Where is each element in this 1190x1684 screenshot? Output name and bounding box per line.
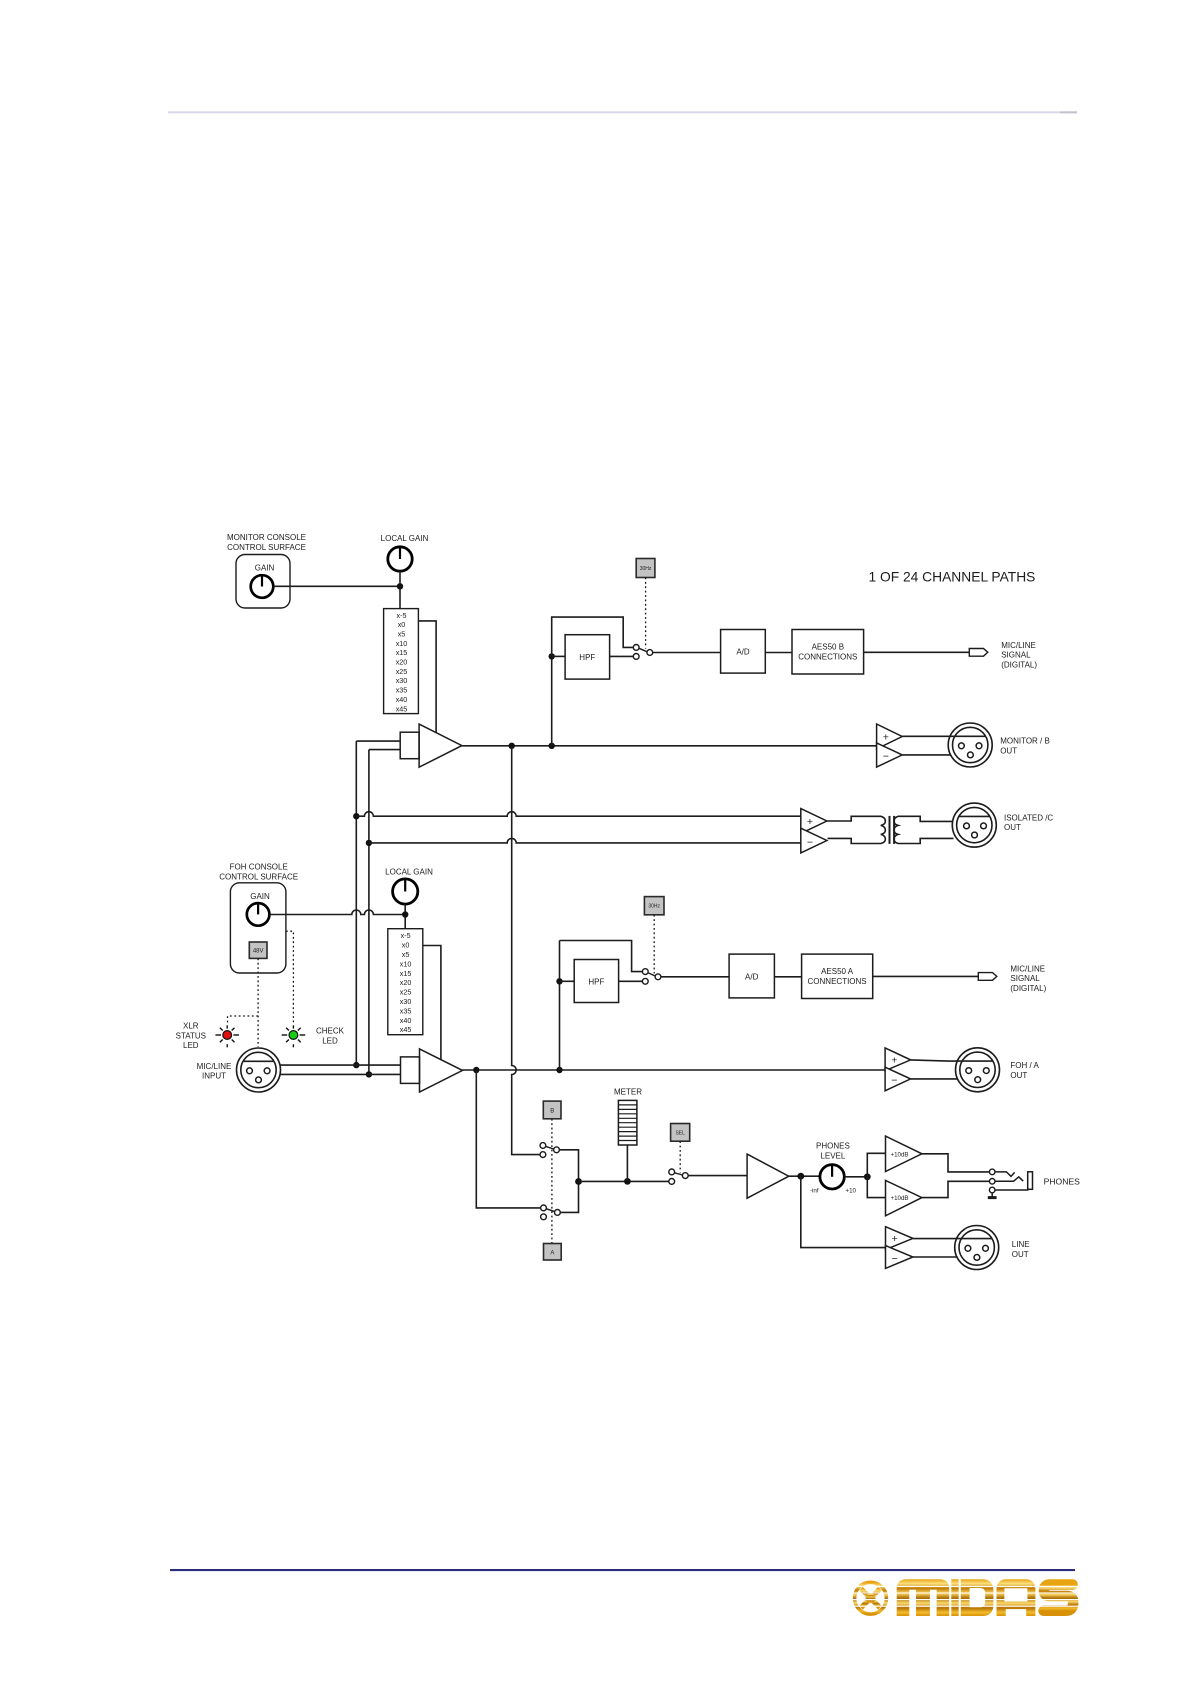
svg-text:CONNECTIONS: CONNECTIONS bbox=[798, 652, 857, 661]
svg-text:x25: x25 bbox=[400, 988, 412, 997]
svg-text:GAIN: GAIN bbox=[255, 564, 275, 573]
svg-text:x15: x15 bbox=[396, 648, 408, 657]
label MIC/LINE INPUT bbox=[197, 1062, 232, 1081]
svg-text:A/D: A/D bbox=[736, 647, 750, 656]
connector XLR MONITOR B OUT bbox=[948, 723, 992, 767]
svg-text:x40: x40 bbox=[396, 695, 408, 704]
input tab FOH VCA bbox=[401, 1057, 420, 1084]
node monitor out to HPF B bbox=[549, 743, 555, 749]
svg-text:x20: x20 bbox=[396, 658, 408, 667]
wire FOH A to select switch vertical bbox=[476, 1070, 540, 1208]
svg-text:x45: x45 bbox=[400, 1025, 412, 1034]
wire headphone left to jack tip bbox=[922, 1154, 989, 1172]
svg-text:x5: x5 bbox=[398, 630, 406, 639]
svg-text:x15: x15 bbox=[400, 969, 412, 978]
svg-text:+: + bbox=[807, 816, 813, 828]
svg-text:OUT: OUT bbox=[1000, 746, 1017, 755]
svg-text:30Hz: 30Hz bbox=[648, 904, 660, 910]
svg-text:1 OF 24 CHANNEL PATHS: 1 OF 24 CHANNEL PATHS bbox=[869, 570, 1036, 585]
wire level pot to headphone amps bbox=[845, 1176, 868, 1178]
amplifier VCA FOH (triangle) bbox=[420, 1049, 463, 1092]
svg-text:SEL: SEL bbox=[675, 1131, 685, 1137]
svg-text:+10: +10 bbox=[846, 1187, 857, 1194]
dashed control 30Hz B to switch bbox=[645, 578, 647, 649]
dashed control 30Hz A to switch bbox=[653, 915, 655, 974]
svg-text:OUT: OUT bbox=[1010, 1071, 1027, 1080]
wire bus1 vertical bbox=[355, 741, 357, 1065]
svg-text:A/D: A/D bbox=[745, 972, 759, 981]
wire phones node to line out driver bbox=[801, 1176, 886, 1247]
svg-text:−: − bbox=[892, 1253, 898, 1265]
wire bus1 to VCA tab bbox=[356, 740, 400, 742]
svg-text:MIC/LINE: MIC/LINE bbox=[1010, 965, 1045, 974]
svg-text:AES50 B: AES50 B bbox=[812, 642, 844, 651]
node monitor out to B select bbox=[509, 743, 515, 749]
wire AD A to AES50 A bbox=[774, 976, 801, 978]
svg-text:x30: x30 bbox=[400, 997, 412, 1006]
node bus1 xlr join bbox=[353, 1062, 359, 1068]
logo stripe gaps bbox=[851, 1586, 1080, 1606]
svg-text:SIGNAL: SIGNAL bbox=[1001, 651, 1031, 660]
control box A bbox=[544, 1244, 562, 1261]
svg-text:x10: x10 bbox=[396, 639, 408, 648]
node HPF A input bbox=[556, 978, 562, 984]
label ISOLATED C OUT bbox=[1004, 814, 1053, 833]
connector XLR FOH A OUT bbox=[956, 1048, 1000, 1092]
MIDAS logo letter A bbox=[997, 1579, 1036, 1616]
pins XLR monitor bbox=[959, 743, 982, 758]
op-amp phones preamp bbox=[747, 1154, 789, 1198]
svg-text:MIC/LINE: MIC/LINE bbox=[197, 1062, 232, 1071]
transformer T1 primary bbox=[827, 816, 885, 843]
wire line out minus to XLR bbox=[913, 1256, 957, 1258]
svg-text:LOCAL GAIN: LOCAL GAIN bbox=[381, 534, 429, 543]
svg-text:A: A bbox=[550, 1250, 554, 1256]
node FOH out to A select bbox=[473, 1067, 479, 1073]
node select mix bbox=[575, 1178, 582, 1185]
wire monitor B to select switch vertical with hop bbox=[512, 746, 540, 1155]
knob LOCAL GAIN FOH bbox=[393, 879, 418, 904]
node bus2 isolated tap bbox=[366, 840, 372, 846]
connector XLR ISOLATED C OUT bbox=[952, 803, 996, 847]
wire XLR input hot to FOH VCA bbox=[280, 1064, 400, 1066]
svg-text:(DIGITAL): (DIGITAL) bbox=[1001, 660, 1037, 669]
svg-text:−: − bbox=[807, 836, 813, 848]
svg-text:FOH / A: FOH / A bbox=[1010, 1061, 1039, 1070]
knob LOCAL GAIN monitor bbox=[388, 547, 412, 571]
svg-text:METER: METER bbox=[614, 1088, 642, 1097]
svg-text:x30: x30 bbox=[396, 676, 408, 685]
jack tip spring bbox=[995, 1172, 1015, 1177]
wire HPF B feed vertical bbox=[551, 656, 553, 745]
control box 30Hz A bbox=[644, 897, 664, 915]
wire phones amp to level pot bbox=[789, 1175, 820, 1177]
svg-text:+10dB: +10dB bbox=[891, 1151, 909, 1158]
pins XLR isolated bbox=[964, 823, 987, 838]
switch select B bbox=[540, 1143, 559, 1158]
svg-text:−: − bbox=[891, 1075, 897, 1087]
wire bus2 vertical bbox=[368, 750, 370, 1075]
jack body bbox=[1028, 1172, 1033, 1190]
svg-text:OUT: OUT bbox=[1004, 823, 1021, 832]
gain values list (monitor) bbox=[396, 611, 408, 714]
svg-text:OUT: OUT bbox=[1012, 1250, 1029, 1259]
wire HPF A feed vertical bbox=[559, 941, 561, 1071]
svg-text:+10dB: +10dB bbox=[891, 1195, 909, 1202]
wire FOH gain list to VCA control port bbox=[423, 946, 441, 1061]
svg-text:LED: LED bbox=[183, 1041, 199, 1050]
wire switch B to AD bbox=[653, 652, 721, 654]
converter AD A box bbox=[729, 954, 774, 998]
meter bargraph bbox=[618, 1100, 637, 1145]
MIDAS logo letter S bbox=[1044, 1585, 1074, 1611]
dashed FOH console to check LED bbox=[286, 931, 294, 1023]
op-amp headphone left +10dB bbox=[886, 1136, 922, 1171]
node HPF B input bbox=[549, 653, 555, 659]
node FOH out to HPF A bbox=[556, 1067, 562, 1073]
svg-text:GAIN: GAIN bbox=[250, 892, 270, 901]
svg-text:x40: x40 bbox=[400, 1016, 412, 1025]
svg-text:−: − bbox=[883, 751, 889, 763]
LED XLR status (red) bbox=[215, 1025, 239, 1047]
op-amp driver LINE OUT minus bbox=[886, 1246, 913, 1269]
wire AES50 A to digital connector bbox=[873, 975, 979, 977]
label XLR STATUS LED bbox=[176, 1022, 206, 1050]
wire HPF B output to switch bbox=[610, 655, 634, 657]
op-amp driver ISOLATED minus bbox=[801, 828, 827, 853]
wire monitor VCA output bbox=[462, 745, 877, 747]
MIDAS logo letter I bbox=[951, 1579, 958, 1616]
node bus1 isolated tap bbox=[353, 813, 359, 819]
node phones split bbox=[797, 1173, 804, 1180]
switch SEL bbox=[669, 1169, 688, 1184]
label PHONES LEVEL bbox=[816, 1142, 850, 1161]
svg-text:x25: x25 bbox=[396, 667, 408, 676]
jack sleeve wire bbox=[995, 1188, 1028, 1191]
control box 30Hz B bbox=[636, 559, 655, 578]
svg-text:AES50 A: AES50 A bbox=[821, 967, 854, 976]
converter AD B box bbox=[721, 630, 766, 674]
dashed branch to XLR status LED bbox=[228, 1016, 259, 1024]
ground jack sleeve bbox=[988, 1193, 997, 1198]
transformer T1 secondary bbox=[894, 816, 954, 843]
transformer T1 core bbox=[890, 816, 895, 844]
svg-text:CONTROL SURFACE: CONTROL SURFACE bbox=[227, 543, 306, 552]
svg-text:(DIGITAL): (DIGITAL) bbox=[1010, 984, 1046, 993]
wire HPF B bypass bbox=[552, 617, 633, 656]
label MIC/LINE SIGNAL DIGITAL B bbox=[1001, 641, 1037, 669]
gain steps box (monitor) bbox=[384, 609, 419, 714]
wire monitor driver minus to XLR bbox=[902, 754, 951, 756]
node headphone amp split bbox=[864, 1173, 871, 1180]
label FOH CONSOLE CONTROL SURFACE bbox=[219, 863, 298, 882]
node junction gain monitor bbox=[397, 583, 403, 589]
svg-text:LOCAL GAIN: LOCAL GAIN bbox=[385, 868, 433, 877]
connector XLR LINE OUT bbox=[955, 1226, 999, 1270]
label MIC/LINE SIGNAL DIGITAL A bbox=[1010, 965, 1046, 993]
knob GAIN monitor console bbox=[251, 575, 274, 598]
wire headphone right to jack ring bbox=[922, 1181, 989, 1197]
svg-text:LINE: LINE bbox=[1012, 1240, 1030, 1249]
wire split to headphone amps bbox=[867, 1153, 885, 1197]
switch select A bbox=[541, 1205, 561, 1220]
connector digital B bbox=[969, 649, 988, 657]
MIDAS logo letter D bbox=[961, 1579, 994, 1616]
knob GAIN FOH console bbox=[247, 903, 270, 926]
top rule bbox=[168, 111, 1077, 113]
label CHECK LED bbox=[316, 1027, 345, 1046]
op-amp driver MONITOR B plus bbox=[877, 724, 903, 749]
label FOH A OUT bbox=[1010, 1061, 1039, 1080]
dashed select control B to A bbox=[551, 1119, 553, 1244]
wire FOH local gain down to gain list bbox=[404, 904, 406, 928]
wire into HPF A bbox=[560, 980, 575, 982]
svg-text:B: B bbox=[550, 1108, 554, 1114]
wire monitor gain to local gain node bbox=[274, 585, 401, 587]
wire local gain knob down to gain list bbox=[399, 572, 401, 609]
svg-text:STATUS: STATUS bbox=[176, 1031, 206, 1040]
chord XLR isolated bbox=[960, 815, 990, 817]
svg-text:PHONES: PHONES bbox=[816, 1142, 850, 1151]
gain steps box (FOH) bbox=[388, 929, 423, 1035]
switch HPF B in/out bbox=[633, 645, 652, 660]
svg-text:MIC/LINE: MIC/LINE bbox=[1001, 641, 1036, 650]
svg-text:CHECK: CHECK bbox=[316, 1027, 345, 1036]
input tab monitor VCA bbox=[400, 732, 419, 759]
MIDAS logo emblem bbox=[855, 1582, 887, 1614]
jack ring spring bbox=[995, 1177, 1023, 1181]
wire into HPF B bbox=[552, 655, 565, 657]
node meter tap bbox=[624, 1178, 631, 1185]
op-amp driver FOH A plus bbox=[885, 1048, 911, 1071]
svg-text:-inf: -inf bbox=[810, 1187, 819, 1194]
svg-text:x35: x35 bbox=[396, 686, 408, 695]
wire bus2 to VCA tab bbox=[369, 749, 400, 751]
label LINE OUT bbox=[1012, 1240, 1030, 1259]
knob PHONES LEVEL bbox=[820, 1165, 844, 1189]
connector digital A bbox=[978, 973, 997, 981]
dashed 48V to XLR input bbox=[257, 958, 259, 1047]
LED check (green) bbox=[282, 1025, 306, 1047]
svg-text:x0: x0 bbox=[402, 941, 410, 950]
svg-text:HPF: HPF bbox=[579, 653, 595, 662]
svg-text:x5: x5 bbox=[402, 950, 410, 959]
filter HPF B box bbox=[565, 635, 610, 679]
label polarity line out driver bbox=[892, 1233, 898, 1265]
svg-text:x10: x10 bbox=[400, 959, 412, 968]
pins XLR line out bbox=[965, 1245, 988, 1260]
svg-text:HPF: HPF bbox=[588, 977, 604, 986]
svg-text:30Hz: 30Hz bbox=[640, 566, 652, 572]
wire AES50 B to digital connector bbox=[864, 651, 970, 653]
monitor console surface box bbox=[236, 555, 290, 609]
svg-text:48V: 48V bbox=[253, 949, 264, 955]
svg-text:MONITOR CONSOLE: MONITOR CONSOLE bbox=[227, 533, 306, 542]
wire meter drop bbox=[626, 1145, 628, 1181]
wire HPF A bypass bbox=[560, 941, 643, 972]
svg-text:INPUT: INPUT bbox=[202, 1072, 226, 1081]
wire AD B to AES50 B bbox=[765, 652, 792, 654]
node bus2 xlr join bbox=[366, 1071, 372, 1077]
wire monitor driver plus to XLR chord bbox=[902, 735, 985, 737]
svg-text:LED: LED bbox=[322, 1036, 338, 1045]
svg-text:+: + bbox=[891, 1055, 897, 1067]
svg-text:x0: x0 bbox=[398, 620, 406, 629]
svg-text:MONITOR / B: MONITOR / B bbox=[1000, 737, 1050, 746]
control box B bbox=[543, 1101, 561, 1119]
svg-text:SIGNAL: SIGNAL bbox=[1010, 974, 1040, 983]
wire gain list to VCA control port bbox=[418, 621, 436, 733]
label polarity monitor driver bbox=[883, 731, 889, 762]
wire line out plus to XLR chord bbox=[913, 1238, 992, 1240]
op-amp driver FOH A minus bbox=[885, 1067, 911, 1091]
wire FOH VCA output bbox=[463, 1069, 886, 1071]
power box 48V bbox=[249, 942, 267, 958]
node junction gain FOH bbox=[402, 911, 408, 917]
svg-text:x20: x20 bbox=[400, 978, 412, 987]
label -inf and +10 bbox=[810, 1187, 857, 1194]
control box SEL bbox=[671, 1124, 690, 1142]
wire FOH driver plus to XLR chord bbox=[911, 1060, 993, 1061]
wire switch A to AD bbox=[661, 976, 729, 978]
AES50 A connections box bbox=[802, 954, 873, 998]
svg-text:CONNECTIONS: CONNECTIONS bbox=[808, 977, 867, 986]
wire SEL pole to phones amp bbox=[688, 1175, 747, 1177]
svg-text:FOH CONSOLE: FOH CONSOLE bbox=[230, 863, 288, 872]
wire FOH driver minus to XLR bbox=[911, 1078, 958, 1080]
filter HPF A box bbox=[574, 960, 618, 1003]
label MONITOR CONSOLE CONTROL SURFACE bbox=[227, 533, 306, 552]
svg-text:x35: x35 bbox=[400, 1006, 412, 1015]
FOH console surface box bbox=[230, 883, 286, 973]
MIDAS logo letter M bbox=[897, 1579, 950, 1616]
op-amp driver LINE OUT plus bbox=[886, 1227, 913, 1250]
wire FOH gain to local gain node with bus hops bbox=[270, 910, 405, 915]
label polarity FOH driver bbox=[891, 1055, 897, 1087]
dashed SEL control to switch bbox=[679, 1141, 681, 1172]
wire select A pole to mix node bbox=[560, 1182, 578, 1213]
wire HPF A output to switch bbox=[619, 980, 643, 982]
label polarity isolated driver bbox=[807, 816, 813, 849]
pins XLR FOH bbox=[966, 1068, 989, 1083]
svg-text:+: + bbox=[883, 731, 889, 743]
amplifier VCA monitor (triangle) bbox=[419, 724, 462, 767]
svg-text:x-5: x-5 bbox=[401, 931, 411, 940]
wire mix node to SEL switch bbox=[579, 1180, 669, 1182]
gain values list (FOH) bbox=[400, 931, 412, 1034]
svg-text:x45: x45 bbox=[396, 704, 408, 713]
svg-text:x-5: x-5 bbox=[397, 611, 407, 620]
connector XLR MIC/LINE INPUT bbox=[237, 1048, 281, 1092]
jack socket contacts bbox=[989, 1169, 995, 1193]
op-amp headphone right +10dB bbox=[886, 1180, 922, 1215]
bottom rule bbox=[170, 1569, 1075, 1571]
wire isolated feed minus with hop bbox=[369, 838, 801, 843]
svg-text:+: + bbox=[892, 1233, 898, 1245]
op-amp driver ISOLATED plus bbox=[801, 809, 827, 834]
label MONITOR B OUT bbox=[1000, 737, 1050, 756]
svg-text:CONTROL SURFACE: CONTROL SURFACE bbox=[219, 872, 298, 881]
op-amp driver MONITOR B minus bbox=[877, 743, 903, 767]
svg-text:ISOLATED /C: ISOLATED /C bbox=[1004, 814, 1053, 823]
wire select B pole to mix node bbox=[559, 1150, 578, 1182]
svg-text:LEVEL: LEVEL bbox=[820, 1152, 845, 1161]
svg-text:XLR: XLR bbox=[183, 1022, 199, 1031]
wire isolated feed plus with hops bbox=[356, 812, 801, 817]
AES50 B connections box bbox=[792, 630, 864, 675]
switch HPF A in/out bbox=[642, 969, 661, 985]
wire XLR input cold to FOH VCA bbox=[280, 1073, 400, 1075]
svg-text:PHONES: PHONES bbox=[1044, 1176, 1081, 1186]
